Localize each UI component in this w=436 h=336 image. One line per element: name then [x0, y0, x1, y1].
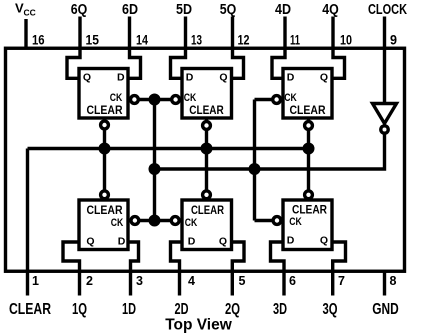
flip-flop U1a box: [79, 69, 128, 119]
pin 6 wire to D of U1f: [271, 242, 285, 296]
svg-text:CLOCK: CLOCK: [368, 2, 407, 18]
svg-text:7: 7: [338, 274, 345, 288]
inverter U2 clock buffer: [373, 104, 397, 124]
svg-text:D: D: [287, 72, 295, 84]
svg-text:CK: CK: [284, 92, 297, 104]
svg-text:CK: CK: [289, 216, 302, 228]
svg-text:5D: 5D: [176, 2, 192, 18]
inverter U2 output bubble: [381, 126, 388, 133]
svg-text:8: 8: [390, 274, 397, 288]
svg-text:6: 6: [289, 274, 296, 288]
package outline (top view DIP-16): [6, 48, 405, 271]
svg-text:12: 12: [238, 32, 250, 48]
svg-text:Q: Q: [83, 72, 91, 84]
flip-flop U1f box: [283, 200, 332, 250]
CK bubble U1b: [172, 96, 180, 104]
svg-text:D: D: [186, 72, 194, 84]
svg-text:CLEAR: CLEAR: [189, 103, 224, 117]
clear bus wire: [28, 147, 309, 150]
svg-text:3: 3: [136, 274, 143, 288]
clear riser wire column 1: [103, 118, 106, 200]
pin 5 wire to Q of U1e: [232, 242, 245, 296]
svg-text:Q: Q: [219, 236, 227, 248]
pin 10 wire to Q of U1c: [332, 17, 345, 79]
junction dot clock left top: [149, 94, 161, 106]
pin 13 wire to D of U1b: [171, 17, 186, 79]
svg-text:3D: 3D: [273, 301, 287, 318]
pin 7 wire to Q of U1f: [332, 242, 346, 296]
wire CK to U1c: [255, 98, 280, 101]
junction dot clear column 2: [201, 143, 213, 155]
CLEAR bubble U1c: [305, 122, 313, 130]
clock riser wire left: [153, 100, 156, 221]
junction dot clock right: [249, 163, 261, 175]
pin 14 wire to D of U1a: [128, 17, 141, 79]
svg-text:D: D: [188, 236, 196, 248]
svg-text:14: 14: [136, 32, 148, 48]
svg-text:1: 1: [32, 274, 39, 288]
clear riser wire column 3: [307, 118, 310, 200]
svg-text:1D: 1D: [122, 301, 136, 318]
pin 15 wire to Q of U1a: [67, 17, 80, 79]
junction dot clear column 1: [99, 143, 111, 155]
svg-text:6D: 6D: [122, 2, 138, 18]
svg-text:9: 9: [390, 32, 397, 48]
svg-text:5Q: 5Q: [220, 2, 237, 18]
svg-text:CC: CC: [24, 8, 36, 18]
svg-text:Q: Q: [219, 72, 227, 84]
pin 4 wire to D of U1e: [171, 242, 183, 296]
svg-text:CLEAR: CLEAR: [292, 203, 327, 217]
flip-flop U1c box: [283, 69, 332, 119]
svg-text:2D: 2D: [175, 301, 189, 318]
CK bubble U1a: [131, 96, 139, 104]
svg-text:CLEAR: CLEAR: [87, 103, 123, 117]
svg-text:11: 11: [290, 32, 300, 48]
svg-text:D: D: [118, 236, 126, 248]
CLEAR bubble U1e: [203, 191, 211, 199]
svg-text:4: 4: [188, 274, 195, 288]
CLEAR bubble U1b: [203, 122, 211, 130]
svg-text:5: 5: [239, 274, 246, 288]
pin 9 CLOCK wire to inverter input: [383, 17, 386, 104]
flip-flop U1b box: [182, 69, 232, 119]
svg-text:CK: CK: [184, 92, 197, 104]
svg-text:GND: GND: [372, 301, 399, 318]
svg-text:Q: Q: [86, 236, 94, 248]
pin 16 VCC stub: [24, 19, 27, 48]
junction dot clock left middle: [149, 163, 161, 175]
CLEAR bubble U1d: [101, 191, 109, 199]
pin 1 CLEAR wire riser to clear bus: [26, 149, 29, 296]
wire CK U1a-U1b: [130, 98, 179, 101]
wire CK U1d-U1e: [130, 219, 178, 222]
pin 3 wire to D of U1d: [128, 242, 139, 296]
pin 12 wire to Q of U1b: [232, 17, 244, 79]
flip-flop U1e box: [182, 200, 232, 250]
clock riser wire right: [253, 100, 256, 221]
CK bubble U1f: [273, 217, 281, 225]
CK bubble U1e: [171, 217, 179, 225]
pin 8 GND stub: [383, 271, 386, 296]
pin 11 wire to D of U1c: [272, 17, 285, 79]
wire CK to U1f: [255, 219, 281, 222]
CK bubble U1c: [273, 96, 281, 104]
svg-text:CLEAR: CLEAR: [9, 301, 51, 318]
clock bus wire: [155, 133, 385, 169]
pin 2 wire to Q of U1d: [63, 242, 80, 296]
svg-text:10: 10: [340, 32, 352, 48]
junction dot clock left bottom: [149, 215, 161, 227]
junction dot clear column 3: [303, 143, 315, 155]
svg-text:13: 13: [191, 32, 202, 48]
svg-text:CLEAR: CLEAR: [290, 103, 326, 117]
CK bubble U1d: [131, 217, 139, 225]
svg-text:2: 2: [86, 274, 93, 288]
svg-text:Q: Q: [320, 72, 328, 84]
clear riser wire column 2: [205, 118, 208, 200]
CLEAR bubble U1f: [305, 191, 313, 199]
svg-text:CK: CK: [110, 92, 123, 104]
svg-text:6Q: 6Q: [71, 2, 88, 18]
svg-text:D: D: [287, 235, 295, 247]
svg-text:CK: CK: [185, 217, 198, 229]
svg-text:4D: 4D: [275, 2, 291, 18]
svg-text:1Q: 1Q: [72, 301, 87, 318]
svg-text:16: 16: [32, 32, 45, 48]
svg-text:CLEAR: CLEAR: [191, 203, 224, 217]
flip-flop U1d box: [79, 200, 128, 250]
svg-text:2Q: 2Q: [225, 301, 240, 318]
svg-text:Top View: Top View: [165, 317, 233, 334]
svg-text:CLEAR: CLEAR: [87, 203, 123, 217]
CLEAR bubble U1a: [101, 121, 109, 129]
svg-text:D: D: [117, 72, 125, 84]
svg-text:3Q: 3Q: [323, 301, 338, 318]
svg-text:4Q: 4Q: [322, 2, 339, 18]
svg-text:15: 15: [86, 32, 100, 48]
label VCC pin 16: [15, 1, 36, 18]
svg-text:CK: CK: [111, 217, 124, 229]
svg-text:Q: Q: [320, 235, 328, 247]
